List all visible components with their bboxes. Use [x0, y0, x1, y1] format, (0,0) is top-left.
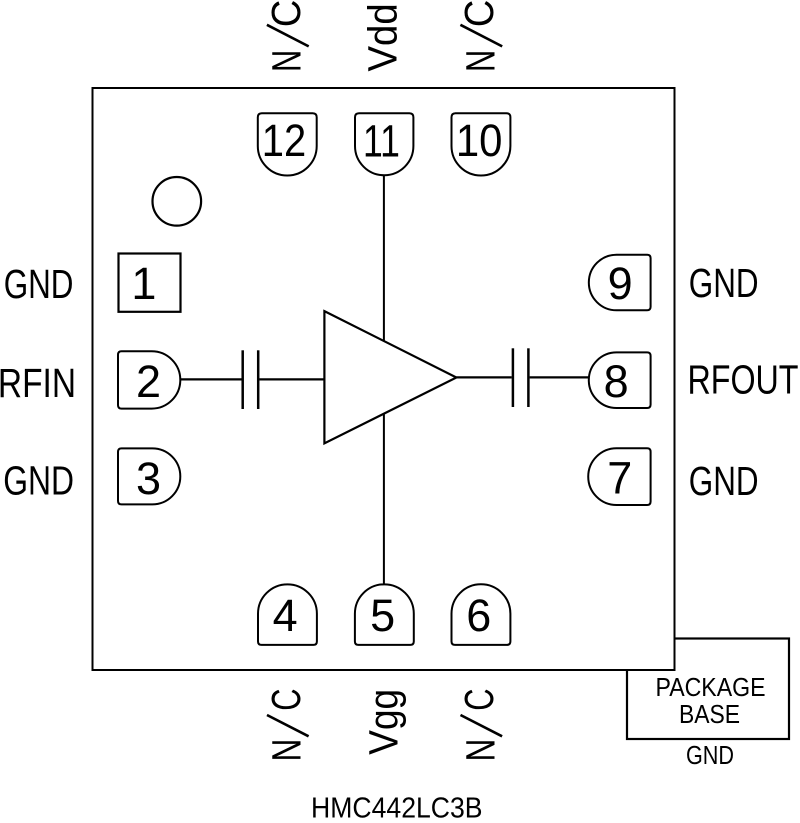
wire C1 to amplifier input — [259, 378, 324, 380]
svg-text:C: C — [263, 688, 309, 710]
svg-text:3: 3 — [136, 453, 161, 504]
svg-text:PACKAGE: PACKAGE — [656, 672, 766, 702]
capacitor C2 (output DC block) — [513, 348, 529, 407]
svg-text:GND: GND — [689, 260, 759, 306]
pad pin 3 — [118, 448, 180, 504]
svg-text:4: 4 — [273, 590, 298, 641]
svg-text:BASE: BASE — [679, 699, 740, 729]
svg-text:GND: GND — [689, 458, 759, 504]
svg-text:1: 1 — [131, 258, 156, 309]
svg-text:HMC442LC3B: HMC442LC3B — [311, 791, 483, 823]
pin 1 index marker circle — [153, 177, 202, 226]
wire Vdd net (pin 11 to amplifier to pin 5, node Vdd/Vgg) — [383, 176, 385, 585]
svg-text:10: 10 — [456, 115, 503, 166]
svg-text:Vgg: Vgg — [360, 689, 406, 755]
label N/C pin 10: slash — [460, 25, 502, 47]
svg-text:2: 2 — [136, 356, 161, 407]
pad pin 9 — [589, 255, 651, 311]
pad pin 5 — [355, 584, 414, 645]
svg-text:6: 6 — [466, 590, 491, 641]
svg-text:12: 12 — [262, 115, 306, 166]
svg-text:N: N — [457, 50, 503, 72]
svg-text:GND: GND — [4, 261, 74, 307]
capacitor C1 (input DC block) — [243, 350, 259, 409]
svg-text:9: 9 — [608, 258, 633, 309]
pad pin 8 — [589, 352, 651, 408]
label N/C pin 6: slash — [461, 715, 503, 736]
svg-text:GND: GND — [3, 457, 74, 503]
wire amplifier output to C2 — [456, 376, 511, 378]
label N/C pin 12: slash — [267, 25, 309, 47]
package base paddle (GND slug) — [627, 639, 789, 740]
svg-text:GND: GND — [686, 740, 734, 770]
pad pin 2 — [118, 351, 180, 408]
label N/C pin 4: slash — [267, 715, 309, 736]
svg-text:C: C — [456, 688, 502, 710]
pad pin 11 — [355, 113, 413, 175]
svg-text:N: N — [263, 50, 309, 72]
pad pin 12 — [258, 113, 317, 175]
svg-text:11: 11 — [363, 116, 400, 167]
wire C2 to RFOUT pin 8 — [530, 376, 589, 378]
svg-text:8: 8 — [604, 356, 629, 407]
svg-text:N: N — [264, 739, 310, 762]
pad pin 1 (square index pad) — [119, 254, 181, 312]
svg-text:7: 7 — [607, 453, 632, 504]
op-amp U1a (amplifier triangle) — [324, 311, 456, 443]
svg-text:C: C — [456, 0, 502, 27]
pad pin 7 — [588, 448, 650, 505]
svg-text:RFIN: RFIN — [0, 360, 76, 406]
pad pin 6 — [452, 584, 511, 645]
package outline U1 (HMC442LC3B body) — [93, 88, 675, 670]
svg-text:C: C — [263, 0, 309, 27]
svg-text:N: N — [458, 739, 504, 762]
wire RFIN: pin 2 to C1 — [180, 378, 241, 380]
pad pin 4 — [258, 584, 317, 645]
svg-text:Vdd: Vdd — [360, 3, 406, 71]
pad pin 10 — [452, 113, 511, 175]
svg-text:5: 5 — [370, 590, 395, 641]
svg-text:RFOUT: RFOUT — [688, 356, 799, 402]
